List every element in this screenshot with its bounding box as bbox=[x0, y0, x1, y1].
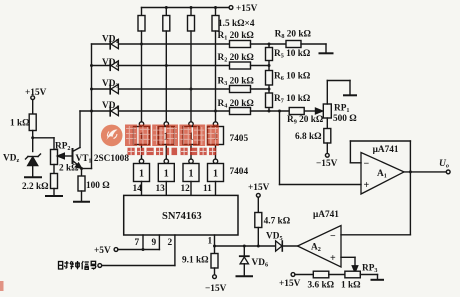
resistor 3.6k bbox=[313, 271, 329, 278]
ground below VD6 bbox=[237, 275, 253, 277]
resistor 1.5k A bbox=[138, 8, 145, 122]
svg-text:100 Ω: 100 Ω bbox=[86, 181, 110, 191]
inverter 7405 gate 3 bbox=[183, 122, 199, 145]
wire row4 bbox=[80, 110, 230, 112]
wire A1 minus input feedback loop bbox=[350, 141, 410, 172]
node bias junction bbox=[31, 136, 34, 139]
wire top +15V rail bbox=[142, 7, 229, 9]
node 4.7k junction bbox=[257, 245, 260, 248]
svg-text:R8 20 kΩ: R8 20 kΩ bbox=[275, 30, 312, 41]
node R9 tap to A1 bbox=[278, 110, 281, 113]
node ladder row4 bbox=[268, 110, 271, 113]
inverter 7404 gate 1 bbox=[134, 159, 150, 181]
diode VD1 bbox=[110, 39, 118, 49]
svg-text:1.5 kΩ×4: 1.5 kΩ×4 bbox=[218, 19, 255, 29]
wire diode cathode bus bbox=[82, 44, 92, 169]
svg-text:9.1 kΩ: 9.1 kΩ bbox=[182, 256, 209, 266]
resistor 100ohm bbox=[78, 169, 85, 202]
svg-text:7: 7 bbox=[135, 238, 140, 248]
wire pin1 to 9.1k bbox=[214, 246, 216, 254]
diode VD4 bbox=[110, 106, 118, 116]
svg-text:R4 20 kΩ: R4 20 kΩ bbox=[218, 99, 255, 110]
transistor VT1 bbox=[73, 111, 82, 168]
inverter 7404 gate 2 bbox=[158, 159, 174, 181]
svg-text:1: 1 bbox=[164, 169, 169, 180]
wire row2 to ladder bbox=[251, 65, 270, 67]
wire pin7 stub bbox=[142, 235, 144, 250]
svg-text:R2 20 kΩ: R2 20 kΩ bbox=[218, 53, 255, 64]
svg-text:VT1 2SC1008: VT1 2SC1008 bbox=[76, 154, 130, 165]
svg-text:13: 13 bbox=[156, 184, 166, 194]
op-amp A2 bbox=[298, 226, 342, 268]
svg-text:500 Ω: 500 Ω bbox=[333, 114, 357, 124]
svg-text:11: 11 bbox=[203, 184, 212, 194]
svg-text:7405: 7405 bbox=[230, 134, 249, 144]
svg-text:−: − bbox=[330, 231, 336, 242]
node bus row2 bbox=[90, 64, 93, 67]
svg-text:+15V: +15V bbox=[25, 88, 47, 98]
resistor R3 bbox=[230, 86, 251, 93]
svg-text:+5V: +5V bbox=[94, 246, 111, 256]
terminal -15V below 6.8k bbox=[325, 153, 329, 157]
resistor 1.5k C bbox=[188, 8, 195, 122]
wire RP3 to ground bbox=[360, 275, 377, 280]
resistor 1.5k D bbox=[212, 8, 219, 122]
inverter 7405 gate 2 bbox=[158, 122, 174, 145]
resistor 4.7k bbox=[255, 197, 262, 246]
svg-text:9: 9 bbox=[152, 238, 157, 248]
resistor 6.8k bbox=[324, 129, 331, 154]
inverter 7404 gate 4 bbox=[208, 159, 224, 181]
text clock signal chinese 时钟信号 bbox=[59, 261, 96, 270]
svg-text:1 kΩ: 1 kΩ bbox=[341, 281, 361, 291]
terminal +15V top bbox=[229, 6, 233, 10]
svg-text:6.8 kΩ: 6.8 kΩ bbox=[295, 132, 322, 142]
wire R9 arrow to RP1 wiper bbox=[304, 108, 322, 114]
wire RP2 wiper to VT1 base bbox=[58, 153, 73, 158]
potentiometer RP1 bbox=[323, 81, 350, 119]
wire row3 to ladder bbox=[251, 88, 270, 90]
node bus row3 bbox=[90, 88, 93, 91]
wire A2 minus feedback from A1 output bbox=[341, 172, 410, 235]
ground above RP1 bbox=[344, 94, 356, 96]
potentiometer RP2 bbox=[51, 150, 58, 174]
diode VDz zener bbox=[26, 154, 41, 177]
svg-text:7404: 7404 bbox=[230, 167, 249, 177]
text 1 in 7405 gates bbox=[139, 132, 218, 143]
wire A1 plus input from ladder bbox=[280, 111, 362, 185]
node VD6 junction bbox=[243, 245, 246, 248]
svg-text:R7 10 kΩ: R7 10 kΩ bbox=[274, 94, 311, 105]
inverter 7405 gate 1 bbox=[134, 122, 150, 145]
wire row3 bbox=[92, 88, 230, 90]
node row3 col3 bbox=[190, 88, 193, 91]
terminal +15V bottom bbox=[291, 273, 295, 277]
resistor R5 bbox=[266, 48, 273, 61]
resistor R4 bbox=[230, 108, 251, 115]
diode VD5 bbox=[276, 241, 283, 251]
inverter 7404 gate 3 bbox=[183, 159, 199, 181]
svg-text:−15V: −15V bbox=[316, 159, 338, 169]
wire A2 plus to RP3 wiper bbox=[341, 257, 358, 272]
svg-text:2: 2 bbox=[168, 238, 173, 248]
diode VD3 bbox=[110, 84, 118, 94]
terminal Uo output bbox=[446, 170, 450, 174]
wire row1 to ladder bbox=[251, 43, 287, 45]
svg-text:−15V: −15V bbox=[205, 284, 227, 294]
node bus row4 bbox=[90, 110, 93, 113]
resistor R8 bbox=[286, 41, 301, 48]
terminal -15V below 9.1k bbox=[213, 275, 217, 279]
watermark big characters bbox=[125, 125, 219, 147]
node row4 col4 bbox=[214, 110, 217, 113]
wire 7404 outputs to SN74163 pins bbox=[142, 182, 216, 196]
svg-text:R5 10 kΩ: R5 10 kΩ bbox=[274, 49, 311, 60]
wire +15V left column bbox=[31, 96, 35, 114]
svg-text:2 kΩ: 2 kΩ bbox=[59, 164, 79, 174]
diode VD6 bbox=[240, 246, 249, 276]
svg-text:μA741: μA741 bbox=[313, 210, 339, 220]
wire +15V to 3.6k bbox=[295, 274, 313, 276]
node ladder row3 bbox=[268, 88, 271, 91]
node rail junction 2 bbox=[165, 6, 168, 9]
watermark small characters bbox=[128, 148, 217, 155]
watermark logo circle bbox=[101, 125, 123, 147]
wire 3.6k to RP3 bbox=[329, 274, 345, 276]
svg-text:SN74163: SN74163 bbox=[162, 211, 202, 222]
svg-text:−: − bbox=[364, 158, 370, 169]
wire row1 bbox=[92, 43, 230, 45]
potentiometer RP3 bbox=[345, 271, 360, 278]
node pin1 junction bbox=[213, 245, 216, 248]
svg-text:μA741: μA741 bbox=[373, 145, 399, 155]
wire pin2 stub bbox=[174, 235, 176, 266]
svg-text:3.6 kΩ: 3.6 kΩ bbox=[308, 281, 335, 291]
wire bias junction to RP2 bbox=[33, 138, 54, 150]
ground below 100ohm bbox=[74, 201, 89, 203]
op-amp A1 bbox=[361, 153, 404, 195]
resistor R6 bbox=[266, 71, 273, 86]
wire R8 to ground bbox=[301, 44, 326, 53]
svg-text:+15V: +15V bbox=[248, 183, 270, 193]
wire RP1 to 6.8k bbox=[326, 118, 328, 129]
node ladder row2 bbox=[268, 64, 271, 67]
svg-text:1: 1 bbox=[208, 237, 213, 247]
node row1 col1 bbox=[140, 43, 143, 46]
resistor 1.5k B bbox=[163, 8, 170, 122]
wire row2 bbox=[92, 65, 230, 67]
node rail junction 4 bbox=[214, 6, 217, 9]
svg-text:R6 10 kΩ: R6 10 kΩ bbox=[274, 72, 311, 83]
ground below 2.2k bbox=[46, 195, 62, 197]
node row2 col2 bbox=[165, 64, 168, 67]
terminal +5V bbox=[114, 248, 118, 252]
wire ladder column bbox=[268, 44, 270, 111]
resistor R2 bbox=[230, 62, 251, 69]
resistor R7 bbox=[266, 93, 273, 108]
ground below zener bbox=[25, 176, 41, 178]
svg-text:+: + bbox=[330, 253, 336, 264]
diode VD2 bbox=[110, 61, 118, 71]
resistor R9 bbox=[289, 108, 304, 115]
svg-text:+: + bbox=[364, 180, 370, 191]
resistor 1k left bbox=[29, 114, 36, 152]
svg-text:1: 1 bbox=[189, 169, 194, 180]
wire row4 to ladder bbox=[251, 110, 290, 112]
node A1 output junction bbox=[409, 170, 412, 173]
terminal +15V above 4.7k bbox=[256, 193, 260, 197]
svg-text:+15V: +15V bbox=[236, 4, 258, 14]
svg-text:+15V: +15V bbox=[279, 279, 301, 289]
wire A1 output bbox=[404, 171, 446, 173]
wire pin1 stub bbox=[214, 235, 216, 246]
svg-text:4.7 kΩ: 4.7 kΩ bbox=[264, 217, 291, 227]
node emitter junction bbox=[80, 167, 83, 170]
svg-text:14: 14 bbox=[133, 184, 143, 194]
terminal clock input bbox=[98, 264, 102, 268]
svg-text:1: 1 bbox=[213, 169, 218, 180]
svg-text:R3 20 kΩ: R3 20 kΩ bbox=[218, 77, 255, 88]
text 1 in 7404 gates bbox=[139, 169, 218, 180]
svg-text:2.2 kΩ: 2.2 kΩ bbox=[22, 182, 49, 192]
svg-text:12: 12 bbox=[181, 184, 191, 194]
node pin7 junction bbox=[142, 248, 145, 251]
watermark edge fleck bbox=[0, 281, 4, 291]
wire 7405 to 7404 links bbox=[142, 145, 216, 160]
wire clock to pin2 bbox=[102, 265, 175, 267]
svg-text:1: 1 bbox=[139, 169, 144, 180]
wire +5V to pins 7 and 9 bbox=[118, 249, 159, 251]
svg-text:R9 20 kΩ: R9 20 kΩ bbox=[287, 115, 324, 126]
svg-text:R1 20 kΩ: R1 20 kΩ bbox=[218, 31, 255, 42]
resistor R1 bbox=[230, 41, 251, 48]
node rail junction 3 bbox=[190, 6, 193, 9]
node ladder row1 bbox=[268, 43, 271, 46]
ground after RP3 bbox=[372, 279, 384, 281]
wire pin9 stub bbox=[158, 235, 160, 250]
IC U3 SN74163 bbox=[124, 195, 238, 235]
inverter 7405 gate 4 bbox=[208, 122, 224, 145]
resistor 2.2k bbox=[51, 174, 58, 196]
wire pin1 node row bbox=[215, 245, 298, 247]
svg-text:1 kΩ: 1 kΩ bbox=[10, 118, 30, 128]
resistor 9.1k bbox=[211, 254, 218, 275]
ground after R8 bbox=[320, 52, 333, 54]
